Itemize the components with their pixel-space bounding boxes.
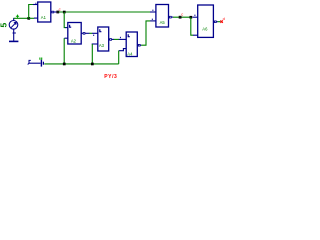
svg-text:c: c	[59, 6, 61, 11]
schematic title text	[104, 74, 117, 80]
wire A1 output to A3 pin 1	[59, 11, 150, 13]
gate A6 label	[202, 26, 208, 31]
gate A4m body	[126, 32, 137, 57]
A2 pin 1 stub	[65, 27, 67, 29]
gate A6 body	[198, 5, 214, 37]
A3 output pin with end circle	[169, 16, 174, 19]
wire V1 to node	[14, 17, 29, 19]
wire node to A1 pin 2	[29, 17, 35, 19]
gate A1 body	[38, 2, 51, 22]
A2 pin 2 stub	[64, 37, 67, 39]
A3m pin 1 stub	[92, 33, 98, 36]
A6 output pin with end circle	[213, 21, 217, 24]
wire A6 output	[218, 21, 221, 23]
junction node at A1 inputs	[27, 17, 30, 20]
gate A3 label	[160, 20, 166, 25]
junction node at A6 inputs	[190, 16, 193, 19]
svg-text:A5: A5	[160, 20, 166, 25]
A6 pin 1 stub	[192, 15, 197, 18]
junction node on top wire	[63, 11, 66, 14]
svg-text:d: d	[223, 16, 225, 21]
battery terminal label	[40, 58, 42, 60]
gate A2 label	[71, 39, 77, 44]
A3 pin 1 stub	[150, 10, 156, 12]
wire A3m output to A4m input	[114, 38, 119, 40]
voltage source V1	[9, 18, 18, 41]
A1 pin 1 stub	[33, 3, 38, 5]
A3 pin 2 stub	[150, 19, 156, 21]
A3m pin 2 stub	[92, 43, 98, 45]
gate A3m pin number mark	[100, 29, 102, 31]
wire node down to A6 pin 2	[191, 17, 193, 35]
A4m output pin with end circle	[137, 44, 141, 47]
A4m pin 1 stub	[119, 37, 126, 40]
wire A4m output up to A3 pin 2	[141, 21, 150, 45]
ground	[9, 40, 18, 42]
gate A1 label	[41, 15, 47, 20]
svg-text:A3: A3	[99, 43, 105, 48]
A1 output pin with end circle	[51, 11, 57, 14]
wire node up to A1 pin 1	[29, 5, 33, 19]
svg-text:c: c	[181, 12, 183, 17]
svg-text:A4: A4	[127, 51, 133, 56]
voltage source V1 value label "5"	[0, 23, 9, 28]
voltage probe on A3 output	[179, 12, 184, 19]
wire A2 output to A3m input	[89, 32, 92, 34]
svg-text:A6: A6	[202, 26, 208, 31]
svg-text:PY/3: PY/3	[104, 74, 117, 80]
A6 pin 2 stub	[193, 34, 198, 36]
junction node rail at A3m riser	[91, 63, 94, 66]
A3m output pin with end circle	[109, 38, 114, 41]
gate A2 pin number mark	[70, 25, 72, 27]
gate A3m label	[99, 43, 105, 48]
V1 plus polarity mark	[16, 15, 19, 18]
wire A2 pin 2 riser to bottom rail	[63, 38, 65, 64]
A1 pin 2 stub	[34, 17, 38, 19]
junction node rail at A2 riser	[63, 63, 66, 66]
battery terminal at rail start	[28, 60, 44, 67]
voltage probe on A6 output	[220, 16, 224, 23]
gate A2 body	[68, 23, 81, 45]
wire drop to A2 pin 1	[64, 12, 66, 28]
gate A4m pin number mark	[128, 34, 130, 36]
wire A3m pin 2 riser to bottom rail	[91, 44, 93, 64]
gate A3m body	[98, 27, 109, 51]
svg-text:A2: A2	[71, 39, 77, 44]
voltage probe on A1 output	[56, 6, 60, 13]
wire A4m pin 2 riser to bottom rail	[118, 51, 120, 64]
wire A3 output to A6 inputs	[173, 16, 190, 18]
A4m pin 2 elbow stub	[119, 49, 126, 51]
A2 output pin with end circle	[81, 32, 89, 35]
gate A3 body	[156, 5, 169, 28]
bottom rail wire	[44, 63, 118, 65]
gate A4m label	[127, 51, 133, 56]
svg-text:5: 5	[0, 23, 9, 28]
svg-text:A1: A1	[41, 15, 47, 20]
